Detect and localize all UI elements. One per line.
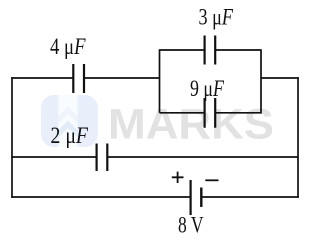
wire bottom rail right segment (202, 196, 299, 198)
wire left rail (11, 77, 13, 198)
svg-text:4 μF: 4 μF (50, 34, 86, 59)
wire bottom rail left segment (11, 196, 190, 198)
svg-text:8 V: 8 V (178, 213, 204, 238)
svg-text:9 μF: 9 μF (190, 76, 225, 101)
wire box to right rail (261, 77, 299, 79)
capacitor C3 9uF plates (205, 98, 216, 128)
svg-text:2 μF: 2 μF (51, 123, 89, 148)
capacitor C2 3uF plates (205, 36, 216, 65)
wire top rail left segment (11, 77, 73, 79)
svg-text:3 μF: 3 μF (199, 5, 234, 30)
battery B1 short plate (200, 188, 202, 208)
watermark logo square (41, 95, 98, 147)
box of parallel combination (160, 49, 262, 113)
battery B1 long plate (190, 180, 192, 215)
wire middle rail left segment (11, 156, 96, 158)
wire right rail (297, 77, 299, 198)
battery plus sign (172, 172, 184, 183)
capacitor C1 4uF plates (73, 64, 84, 93)
wire middle rail right segment (108, 156, 299, 158)
capacitor C4 2uF plates (97, 144, 108, 172)
wire top rail middle segment (85, 77, 160, 79)
battery minus sign (205, 179, 218, 181)
svg-text:MARKS: MARKS (108, 101, 274, 149)
